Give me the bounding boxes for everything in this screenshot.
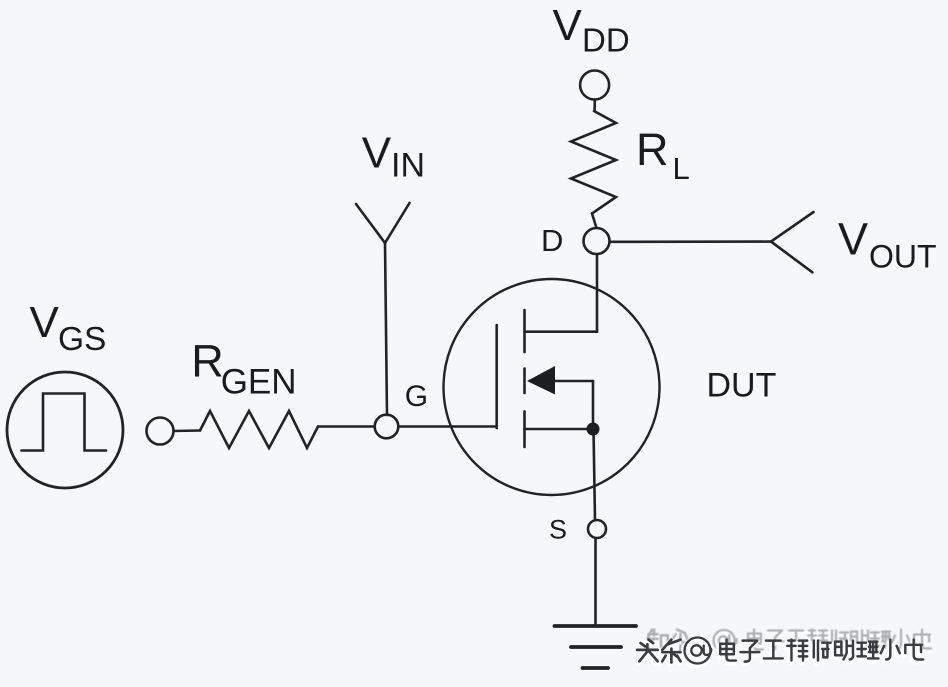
watermark zhihu gray [647,630,931,654]
gate bar [495,325,498,428]
resistor RL [571,111,616,214]
svg-text:OUT: OUT [869,239,937,275]
antenna VIN left arm [356,204,385,243]
svg-text:V: V [553,1,583,50]
antenna VIN vertical wire [385,243,387,415]
MOSFET DUT body circle [444,279,660,495]
VOUT probe upper arm [771,212,814,242]
wire VDD to RL [593,100,596,112]
svg-text:DD: DD [582,22,630,59]
ground line 2 [571,645,621,649]
D node circle [584,228,610,254]
drain vertical wire [596,254,599,332]
svg-text:L: L [673,151,690,186]
node G junction circle [375,415,399,439]
VOUT probe lower arm [771,242,812,273]
svg-text:S: S [549,515,567,545]
terminal circle [147,418,174,445]
svg-text:DUT: DUT [707,367,777,405]
VDD terminal circle [580,71,609,100]
pulse source VGS circle [7,372,123,488]
wire terminal to resistor [172,429,200,432]
source horizontal wire [525,428,594,431]
svg-text:D: D [541,223,563,258]
svg-text:V: V [362,129,392,178]
svg-text:G: G [405,380,428,413]
svg-text:GEN: GEN [221,363,297,402]
svg-text:V: V [838,213,868,264]
svg-text:R: R [636,124,669,175]
ground line 1 [555,624,637,628]
wire gate [318,425,496,428]
watermark zhihu gray shadow [646,632,930,656]
source vertical wire to S [594,429,596,520]
body wire from arrow [553,380,593,383]
body vertical wire [592,381,595,429]
source junction dot [587,423,600,436]
svg-text:IN: IN [391,146,425,184]
S terminal circle [588,520,606,538]
svg-text:GS: GS [58,321,106,358]
watermark toutiao dark [637,638,923,664]
antenna VIN right arm [385,203,410,243]
svg-text:V: V [30,298,60,347]
pulse waveform [22,394,107,451]
channel dash top [523,310,526,352]
drain horizontal wire [525,330,598,333]
watermark toutiao white shadow [636,640,922,666]
channel dash bottom [523,411,526,447]
MOSFET body-diode arrow [527,366,555,395]
wire S to ground [594,538,597,626]
svg-text:R: R [191,336,224,387]
wire RL to D [592,214,597,229]
wire D to VOUT [610,240,771,243]
resistor RGEN [200,411,318,448]
ground line 3 [583,666,609,670]
channel dash middle [523,369,526,394]
